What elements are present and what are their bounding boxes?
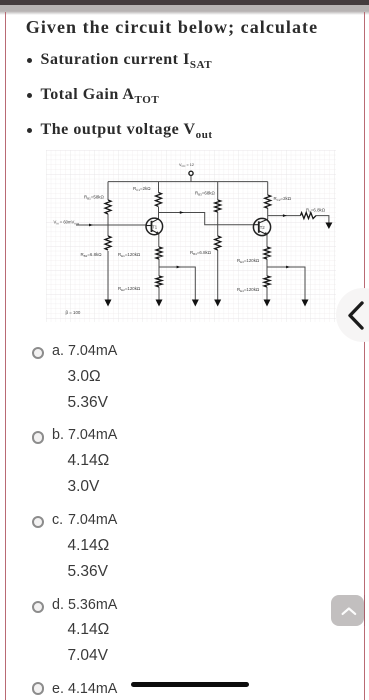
resistor RE1a 120k <box>156 247 162 259</box>
transistor T2 <box>253 218 270 235</box>
option a <box>52 344 64 358</box>
wire RE1b down <box>158 287 160 300</box>
wire Vcc drop <box>190 176 192 182</box>
wire RB4 down <box>217 250 219 300</box>
left red border line <box>5 12 6 700</box>
wire RE2b down <box>266 287 268 300</box>
ground arrow left divider <box>105 300 112 307</box>
option d <box>52 598 64 612</box>
Vcc terminal <box>189 171 193 175</box>
wire emitter T2 <box>266 235 268 248</box>
wire RB3-RB4 mid <box>217 212 219 236</box>
node arrow stage1 bypass <box>177 266 181 269</box>
resistor RE2a 120k <box>264 247 270 259</box>
ground arrow T2 emitter <box>264 300 271 307</box>
resistor RB1 58k <box>105 200 111 214</box>
wire RB3 drop <box>217 182 219 200</box>
node arrow coupling <box>180 211 184 214</box>
wire left branch upper <box>107 182 109 200</box>
gray bar under status <box>0 5 369 15</box>
resistor RB3 68k <box>215 200 221 212</box>
circuit schematic <box>46 150 336 322</box>
wire RC2 drop <box>267 182 269 195</box>
ground arrow stage2 bypass <box>302 300 309 307</box>
option b <box>52 428 64 442</box>
chevron back icon <box>344 300 368 330</box>
chevron back circle <box>336 288 369 342</box>
resistor RE1b 120k <box>156 276 162 287</box>
option b radio <box>32 431 44 443</box>
svg-text:β = 100: β = 100 <box>66 310 81 315</box>
bullet 3 <box>41 121 213 141</box>
wire RC1 drop <box>158 182 160 193</box>
option c radio <box>32 516 44 528</box>
ground arrow RL output <box>325 223 332 230</box>
option e radio <box>32 682 44 694</box>
svg-text:T2: T2 <box>260 225 266 230</box>
option a radio <box>32 347 44 359</box>
option e <box>52 682 64 696</box>
option c <box>52 513 63 527</box>
svg-text:Vin = 60mVrms: Vin = 60mVrms <box>54 220 80 226</box>
wire coupling C1 to stage2 <box>159 213 254 225</box>
wire left branch mid <box>107 214 109 236</box>
wire emitter T1 <box>158 234 160 248</box>
wire RL to ground <box>316 216 329 223</box>
resistor RC1 2k <box>156 193 162 207</box>
bullet 2 <box>41 86 160 106</box>
wire side branch stage1 <box>159 267 195 300</box>
resistor RL 6.8k horizontal <box>300 213 316 219</box>
resistor RB4 6.8k <box>215 236 221 250</box>
node arrow output <box>283 214 287 217</box>
wire input base line stage1 <box>76 224 146 226</box>
svg-text:T1: T1 <box>152 224 158 229</box>
wire emitter chain T1 junction <box>158 259 160 276</box>
node arrow stage2 bypass <box>286 266 290 269</box>
wire output line <box>268 215 301 217</box>
resistor RE2b 120k <box>264 276 270 287</box>
resistor RB2 6.8k <box>105 236 111 250</box>
wire left branch lower <box>107 251 109 300</box>
ground arrow stage1 bypass <box>192 300 199 307</box>
wire collector T2 <box>267 208 269 220</box>
wire emitter chain T2 junction <box>266 259 268 276</box>
scroll-top chevron <box>336 602 359 619</box>
resistor RC2 2k <box>265 195 271 208</box>
ground arrow T1 emitter <box>156 300 163 307</box>
arrow input signal <box>89 224 93 227</box>
scroll-top button <box>331 595 364 626</box>
home indicator bar <box>131 682 249 687</box>
wire collector T1 <box>158 207 160 219</box>
ground arrow stage2 divider <box>214 300 221 307</box>
right red border line <box>364 12 365 700</box>
wire side branch stage2 <box>267 267 305 300</box>
top dark status bar <box>0 0 369 5</box>
wire top rail <box>108 181 268 183</box>
bullet 1 <box>41 51 213 71</box>
question title <box>26 17 318 38</box>
transistor T1 <box>146 218 163 235</box>
option d radio <box>32 601 44 613</box>
